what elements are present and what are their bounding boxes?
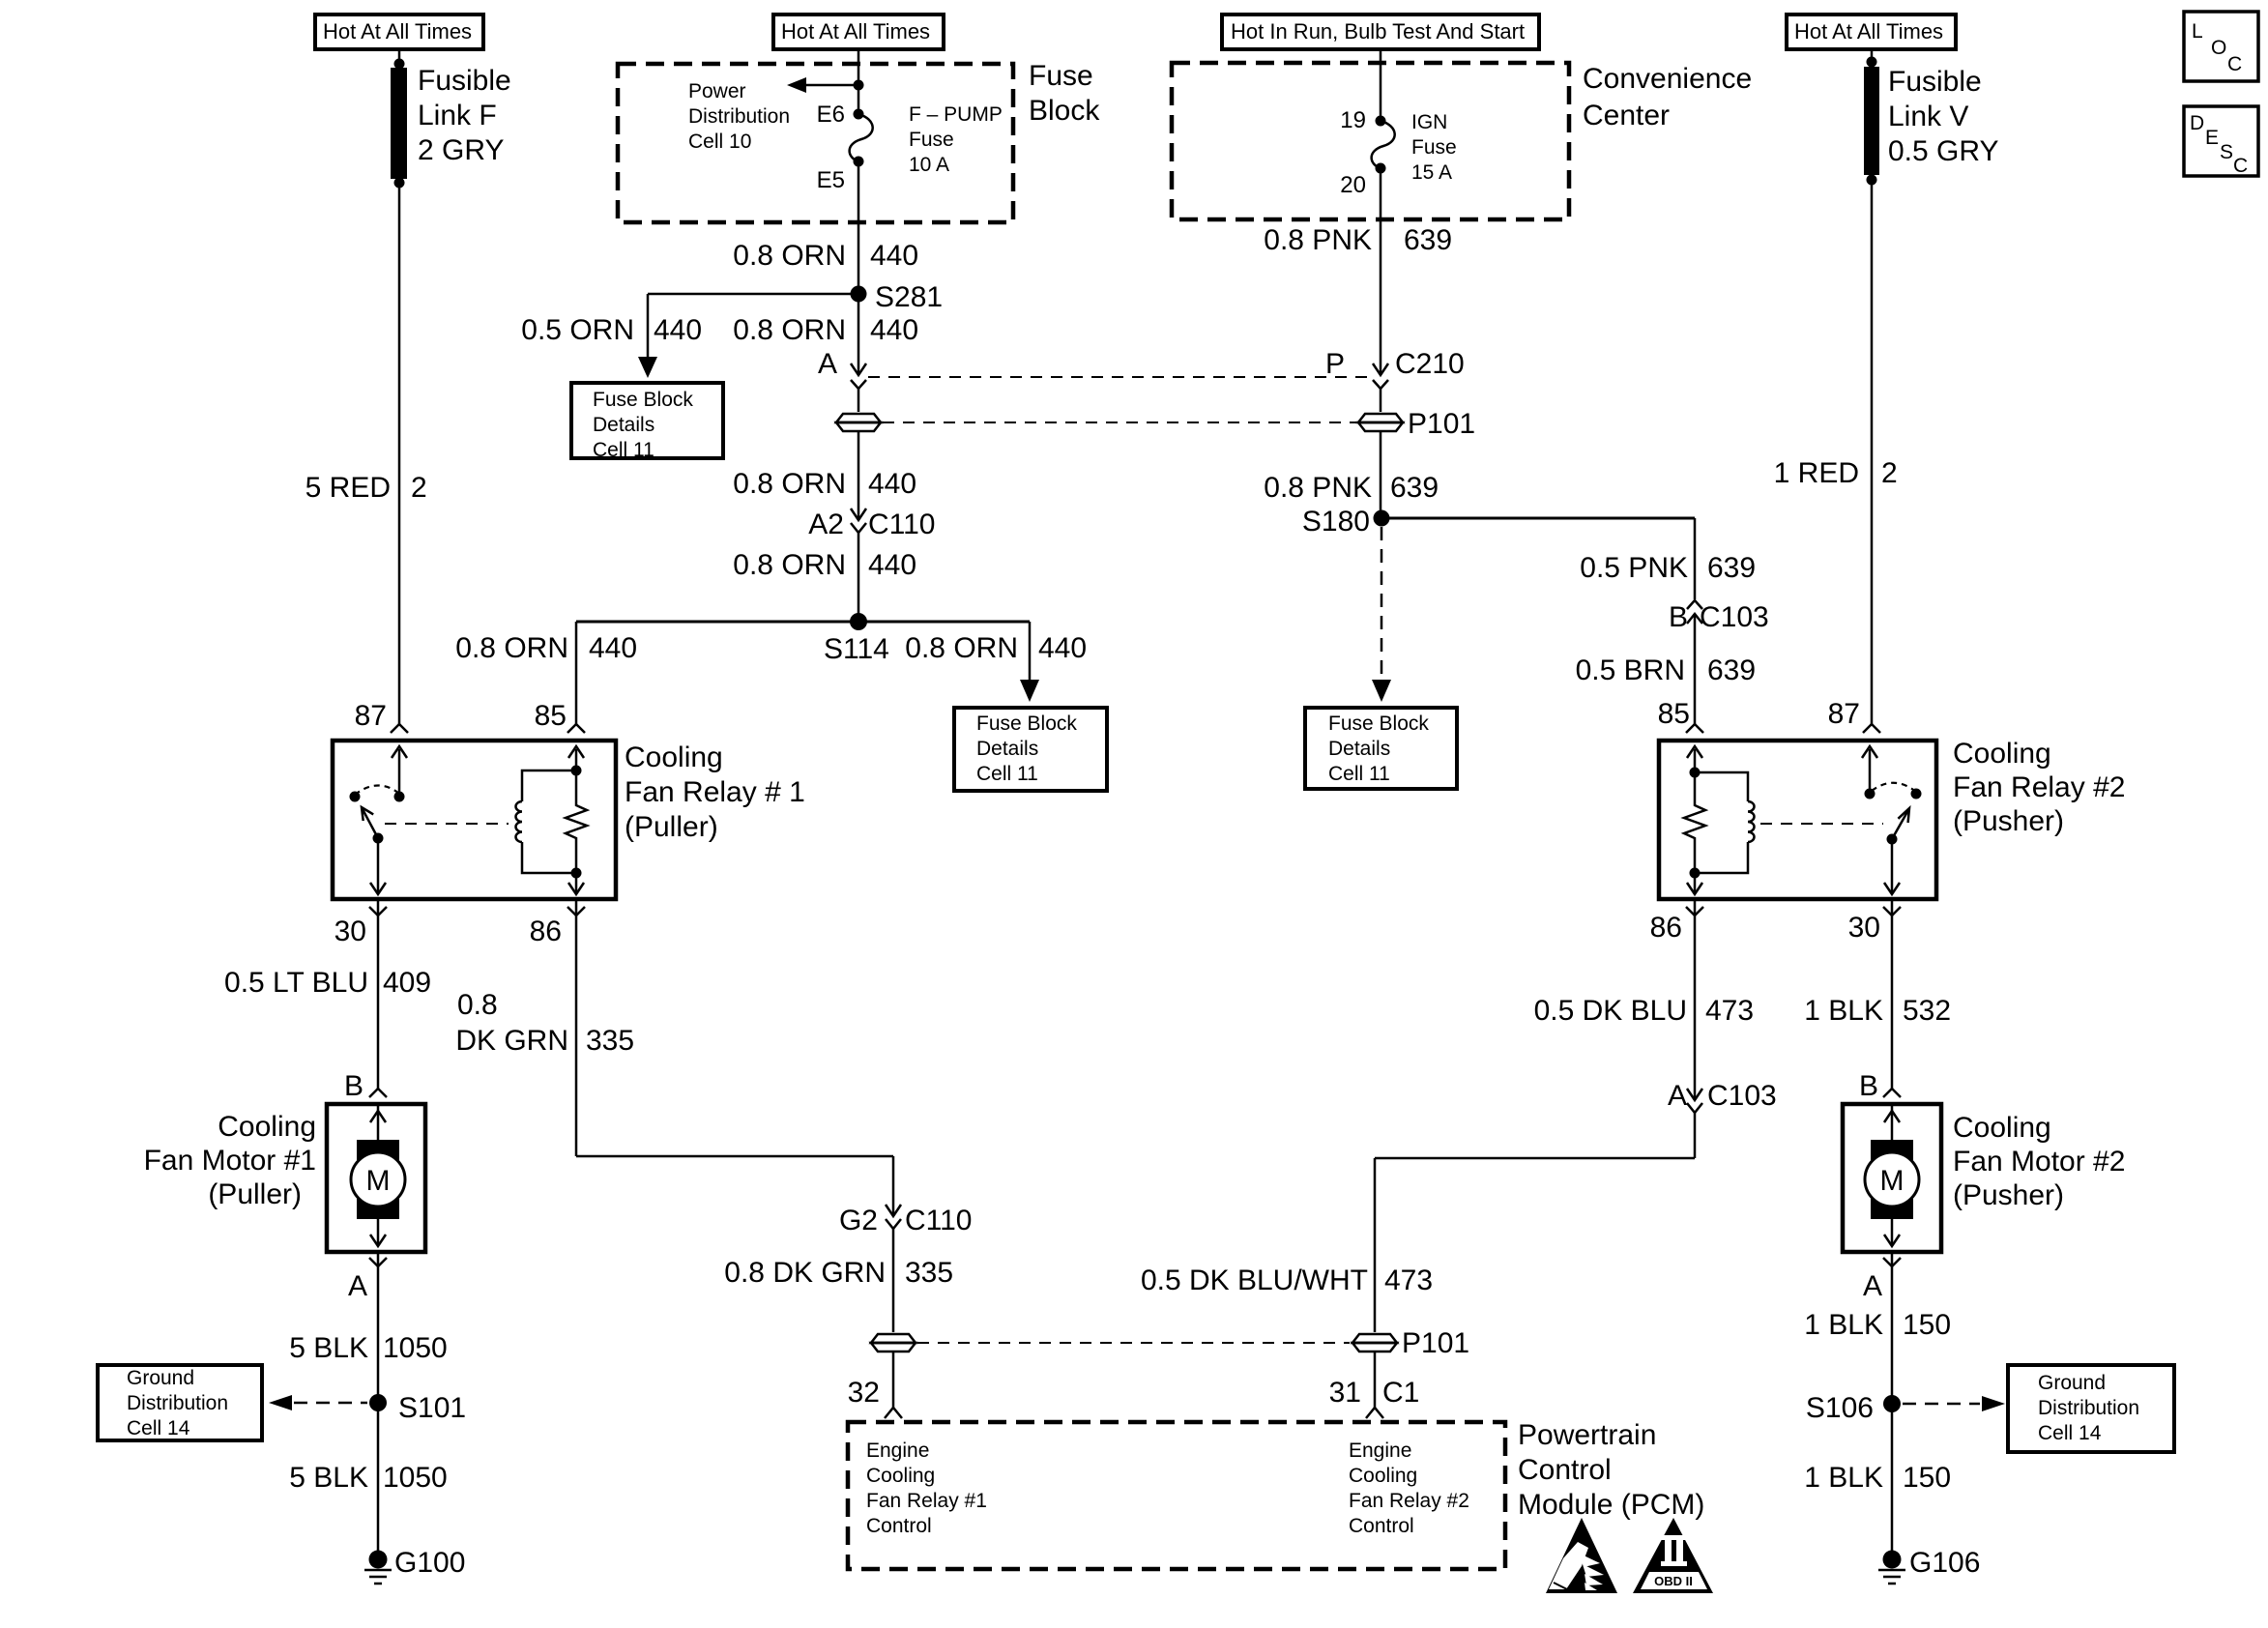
svg-text:Fusible: Fusible [418, 65, 511, 97]
feed box "Hot At All Times" (left) [315, 15, 483, 49]
svg-text:C1: C1 [1382, 1377, 1419, 1409]
svg-text:Cell 11: Cell 11 [1328, 763, 1390, 785]
svg-text:Engine: Engine [866, 1439, 929, 1462]
svg-text:0.8 ORN: 0.8 ORN [733, 468, 846, 500]
svg-text:0.5 BRN: 0.5 BRN [1576, 654, 1685, 686]
svg-text:1 BLK: 1 BLK [1804, 1309, 1883, 1341]
wire P101 to C110 [858, 431, 860, 520]
OBD II symbol [1633, 1518, 1713, 1593]
pin 85 label relay 1 [535, 700, 585, 733]
relay K2 switch lever with arrow [1887, 808, 1910, 845]
svg-text:Fuse: Fuse [909, 129, 954, 151]
svg-text:IGN: IGN [1411, 111, 1447, 133]
connector C110 pin A2 [808, 509, 935, 540]
svg-text:409: 409 [383, 967, 431, 999]
relay K1 switch fixed contact [350, 792, 361, 802]
wire to P101 left [858, 389, 860, 412]
feed box "Hot At All Times" (middle) [773, 15, 944, 49]
motor M1 rotor circle [351, 1152, 405, 1206]
relay K2 pin 87 internal arrow [1862, 746, 1877, 799]
svg-text:Cell 10: Cell 10 [688, 131, 751, 153]
svg-text:Cooling: Cooling [1349, 1465, 1417, 1487]
svg-text:S114: S114 [824, 633, 889, 665]
svg-text:(Puller): (Puller) [625, 811, 718, 843]
dashed connector line P101 (bottom pair) [917, 1342, 1350, 1344]
relay K1 box: Cooling Fan Relay #1 (Puller) [333, 741, 616, 899]
svg-text:Fan Relay #1: Fan Relay #1 [866, 1490, 987, 1512]
svg-text:Cooling: Cooling [625, 741, 723, 773]
pass-through grommet P101 (DK BLU/WHT wire) [1352, 1327, 1469, 1359]
svg-text:DK GRN: DK GRN [455, 1025, 568, 1057]
relay K2 control dashed line [1760, 823, 1883, 825]
power distribution reference text [688, 80, 790, 153]
junction dot and arrow to power distribution [787, 77, 864, 93]
wire 0.5 LT BLU 409 relay1-30 to motor1-B [377, 899, 380, 1090]
svg-text:Engine: Engine [1349, 1439, 1411, 1462]
motor M2 rotor circle [1865, 1152, 1919, 1206]
wire 0.8 DK GRN relay1 pin86 down [575, 899, 578, 1156]
motor2 pin B connector [1859, 1070, 1901, 1102]
svg-text:86: 86 [530, 916, 562, 947]
svg-text:Fan Relay #2: Fan Relay #2 [1349, 1490, 1469, 1512]
convenience center name label [1583, 63, 1752, 131]
svg-text:Block: Block [1029, 95, 1100, 127]
svg-text:0.8: 0.8 [457, 989, 498, 1021]
svg-text:P101: P101 [1402, 1327, 1469, 1359]
svg-text:0.8 ORN: 0.8 ORN [733, 549, 846, 581]
svg-text:Cooling: Cooling [1953, 738, 2051, 770]
svg-text:Fan Relay #2: Fan Relay #2 [1953, 771, 2125, 803]
wire from hot box to fusible link V [1871, 49, 1874, 62]
svg-text:1 BLK: 1 BLK [1804, 1462, 1883, 1494]
svg-text:0.8 ORN: 0.8 ORN [455, 632, 568, 664]
ground G100 [364, 1547, 465, 1584]
relay K1 resistor [566, 766, 587, 879]
svg-text:1 BLK: 1 BLK [1804, 995, 1883, 1027]
svg-text:Cooling: Cooling [1953, 1112, 2051, 1144]
svg-text:A: A [1668, 1080, 1687, 1112]
fuse F-PUMP pin E5 [817, 157, 864, 194]
svg-text:87: 87 [1828, 698, 1860, 730]
svg-text:87: 87 [355, 700, 387, 732]
wire S281 down to connector A C210 [858, 294, 860, 375]
fuse block dashed box [618, 64, 1013, 222]
svg-text:Link F: Link F [418, 100, 497, 131]
svg-text:Cooling: Cooling [866, 1465, 935, 1487]
fuse IGN name label [1411, 111, 1457, 184]
wire 0.5 PNK 639 S180 to C103 [1381, 518, 1695, 599]
svg-text:Hot In Run, Bulb Test And Star: Hot In Run, Bulb Test And Start [1231, 19, 1525, 44]
label 0.8 ORN 440 (above C110) [733, 468, 916, 500]
pass-through grommet P101 (ORN wire) [836, 414, 881, 431]
svg-text:Fuse: Fuse [1029, 60, 1093, 92]
motor M1 brushes [357, 1140, 399, 1219]
fuse F-PUMP name label [909, 103, 1003, 176]
svg-text:0.8 ORN: 0.8 ORN [733, 240, 846, 272]
svg-text:2: 2 [1881, 457, 1898, 489]
label 0.8 / DK GRN 335 [455, 989, 634, 1057]
wire 0.8 ORN 440 S114 to relay1 pin 85 [575, 622, 578, 725]
svg-text:Cell 14: Cell 14 [2038, 1422, 2102, 1444]
wire from hot box to fusible link F [398, 49, 401, 64]
S114 bus wire [576, 621, 1030, 624]
svg-text:A: A [818, 348, 837, 380]
svg-text:473: 473 [1705, 995, 1754, 1027]
motor M1 internal top arrow [370, 1106, 386, 1143]
svg-text:A2: A2 [808, 509, 844, 540]
label 5 RED 2 [305, 472, 427, 504]
svg-text:C: C [2227, 53, 2242, 75]
pin 87 label relay 1 [355, 700, 408, 733]
svg-text:Power: Power [688, 80, 746, 102]
relay K1 switch lever with arrow [362, 807, 384, 844]
svg-text:OBD II: OBD II [1654, 1574, 1693, 1588]
svg-text:Cell 14: Cell 14 [127, 1417, 190, 1439]
relay K2 coil [1695, 772, 1755, 873]
svg-text:P: P [1325, 348, 1345, 380]
svg-text:150: 150 [1903, 1462, 1951, 1494]
svg-text:Ground: Ground [127, 1367, 194, 1389]
motor M1 name label [144, 1111, 316, 1210]
PCM internal label: Engine Cooling Fan Relay #2 Control [1349, 1439, 1469, 1537]
svg-text:0.5 PNK: 0.5 PNK [1580, 552, 1688, 584]
fuse IGN pin 20 [1340, 163, 1385, 199]
svg-text:Module (PCM): Module (PCM) [1518, 1489, 1704, 1521]
svg-text:440: 440 [870, 240, 918, 272]
svg-text:Hot At All Times: Hot At All Times [781, 19, 930, 44]
svg-text:2 GRY: 2 GRY [418, 134, 505, 166]
svg-text:440: 440 [868, 468, 916, 500]
splice S101 [369, 1392, 466, 1424]
svg-text:85: 85 [1658, 698, 1690, 730]
wire 0.5 BRN 639 C103 to relay2 pin 85 [1694, 614, 1697, 725]
svg-text:Cell 11: Cell 11 [593, 439, 654, 461]
svg-text:S: S [2220, 141, 2233, 163]
svg-text:335: 335 [586, 1025, 634, 1057]
svg-text:Details: Details [976, 738, 1038, 760]
PCM pin 31 C1 [1329, 1377, 1420, 1418]
fuse F-PUMP 10A pin E6 [817, 102, 864, 128]
relay K2 switch dashed arc [1872, 783, 1916, 792]
svg-text:C: C [2233, 155, 2248, 177]
svg-text:E6: E6 [817, 102, 845, 128]
svg-text:440: 440 [654, 314, 702, 346]
svg-text:Details: Details [593, 414, 654, 436]
PCM pin 32 [848, 1377, 902, 1418]
svg-text:S281: S281 [875, 281, 943, 313]
svg-text:S101: S101 [398, 1392, 466, 1424]
relay K2 pin 30 internal arrow [1884, 839, 1900, 894]
svg-text:0.5 DK BLU/WHT: 0.5 DK BLU/WHT [1141, 1265, 1368, 1296]
svg-text:1050: 1050 [383, 1462, 448, 1494]
svg-text:C103: C103 [1707, 1080, 1777, 1112]
svg-text:Fan Motor #1: Fan Motor #1 [144, 1145, 316, 1177]
relay K1 pin 85 internal arrow [568, 746, 584, 770]
svg-text:335: 335 [905, 1257, 953, 1289]
svg-text:440: 440 [1038, 632, 1087, 664]
relay K1 pin 86 internal arrow [568, 873, 584, 894]
wire corner to G2 C110 [576, 1156, 893, 1216]
svg-text:85: 85 [535, 700, 567, 732]
svg-text:B: B [1669, 601, 1688, 633]
relay K2 box: Cooling Fan Relay #2 (Pusher) [1659, 741, 1936, 899]
wire 5 BLK 1050 motor1-A to S101 [377, 1252, 380, 1551]
wire hot feed into convenience center [1380, 49, 1382, 121]
svg-text:639: 639 [1707, 552, 1756, 584]
wire 1 RED 2 down to relay 2 pin 87 [1871, 180, 1874, 725]
fuse F-PUMP element [850, 114, 873, 161]
svg-text:Fan Relay # 1: Fan Relay # 1 [625, 776, 805, 808]
svg-text:A: A [1863, 1270, 1882, 1302]
svg-text:0.5 DK BLU: 0.5 DK BLU [1534, 995, 1687, 1027]
wire C103 corner to P101 [1375, 1113, 1695, 1332]
svg-text:0.8 ORN: 0.8 ORN [905, 632, 1018, 664]
svg-text:440: 440 [868, 549, 916, 581]
label 0.8 ORN 440 (below S281) [733, 314, 918, 346]
label 1 BLK 150 (lower) [1804, 1462, 1951, 1494]
feed box "Hot At All Times" (right) [1787, 15, 1956, 49]
svg-text:20: 20 [1340, 172, 1366, 198]
motor2 pin A connector [1863, 1258, 1901, 1302]
pin 86 label relay 1 [530, 907, 585, 947]
fuse block details box (right) [1305, 708, 1457, 789]
relay K1 pin 87 internal arrow [392, 746, 407, 802]
svg-text:5 BLK: 5 BLK [289, 1332, 368, 1364]
relay K2 switch fixed contact [1911, 789, 1922, 799]
dashed connector line C210 [868, 376, 1372, 378]
svg-text:5 BLK: 5 BLK [289, 1462, 368, 1494]
motor M2 internal bottom arrow [1884, 1219, 1900, 1246]
svg-text:C210: C210 [1395, 348, 1465, 380]
relay K1 coil [516, 770, 577, 873]
svg-text:473: 473 [1384, 1265, 1433, 1296]
relay K1 control dashed line [385, 823, 509, 825]
svg-text:0.8 PNK: 0.8 PNK [1264, 472, 1372, 504]
splice S106 [1806, 1392, 1901, 1424]
wire 0.5 DK BLU 473 relay2-86 down to C103 [1694, 899, 1697, 1100]
svg-text:Fuse: Fuse [1411, 136, 1457, 159]
svg-text:0.8 DK GRN: 0.8 DK GRN [724, 1257, 886, 1289]
svg-text:532: 532 [1903, 995, 1951, 1027]
svg-text:A: A [348, 1270, 367, 1302]
ground G106 [1878, 1547, 1980, 1584]
svg-text:639: 639 [1707, 654, 1756, 686]
svg-text:D: D [2190, 112, 2204, 134]
motor M2 internal top arrow [1884, 1106, 1900, 1143]
svg-text:639: 639 [1390, 472, 1439, 504]
svg-text:B: B [1859, 1070, 1878, 1102]
svg-text:P101: P101 [1408, 408, 1475, 440]
relay K1 switch dashed arc [355, 785, 398, 795]
svg-text:Distribution: Distribution [2038, 1397, 2139, 1419]
svg-text:G106: G106 [1909, 1547, 1980, 1579]
svg-text:G2: G2 [839, 1205, 878, 1236]
fusible link F (2 GRY) [391, 59, 511, 189]
svg-text:440: 440 [870, 314, 918, 346]
svg-text:C110: C110 [868, 509, 936, 540]
svg-text:(Pusher): (Pusher) [1953, 1179, 2064, 1211]
svg-text:2: 2 [411, 472, 427, 504]
svg-text:Distribution: Distribution [127, 1392, 228, 1414]
ground distribution reference box (right) [2008, 1365, 2174, 1452]
PCM internal label: Engine Cooling Fan Relay #1 Control [866, 1439, 987, 1537]
wire to P101 right [1380, 389, 1382, 412]
svg-text:S180: S180 [1302, 506, 1370, 538]
wire 0.8 ORN 440 C110 to S114 [858, 533, 860, 622]
motor1 pin B connector [344, 1070, 387, 1102]
convenience center dashed box [1172, 63, 1569, 219]
PCM name label [1518, 1419, 1704, 1521]
svg-text:Hot At All Times: Hot At All Times [1794, 19, 1943, 44]
splice S180 [1302, 506, 1390, 538]
svg-text:(Pusher): (Pusher) [1953, 805, 2064, 837]
fuse block details box (left) [571, 383, 723, 461]
svg-text:C110: C110 [905, 1205, 973, 1236]
svg-text:B: B [344, 1070, 363, 1102]
connector C210 pin P [1325, 348, 1465, 389]
DESC key box [2184, 106, 2258, 177]
label 5 BLK 1050 (lower) [289, 1462, 447, 1494]
pin 87 label relay 2 [1828, 698, 1880, 733]
svg-text:0.5 GRY: 0.5 GRY [1888, 135, 1999, 167]
svg-text:5 RED: 5 RED [305, 472, 391, 504]
label 0.5 ORN 440 [521, 314, 702, 346]
motor1 pin A connector [348, 1258, 387, 1302]
svg-text:15 A: 15 A [1411, 161, 1452, 184]
svg-text:M: M [366, 1165, 391, 1197]
ground distribution reference box (left) [98, 1365, 262, 1440]
svg-text:M: M [1880, 1165, 1905, 1197]
svg-text:30: 30 [1848, 912, 1880, 944]
svg-text:Powertrain: Powertrain [1518, 1419, 1656, 1451]
dashed reference arrow S101 to ground distribution box [269, 1395, 367, 1410]
pin 30 label relay 1 [334, 907, 387, 947]
wire P101 to PCM pin 32 [892, 1352, 895, 1408]
svg-text:Hot At All Times: Hot At All Times [323, 19, 472, 44]
svg-text:G100: G100 [394, 1547, 465, 1579]
svg-text:Details: Details [1328, 738, 1390, 760]
pin 30 label relay 2 [1848, 907, 1901, 944]
svg-text:F – PUMP: F – PUMP [909, 103, 1003, 126]
svg-text:Fuse Block: Fuse Block [1328, 712, 1429, 735]
wire hot feed into fuse block [858, 49, 860, 114]
svg-text:10 A: 10 A [909, 154, 949, 176]
svg-text:0.8 ORN: 0.8 ORN [733, 314, 846, 346]
pass-through grommet P101 (DK GRN wire) [871, 1334, 916, 1352]
wire 0.5 ORN 440 branch to fuse block details [638, 294, 858, 378]
fuse IGN pin 19 [1340, 107, 1385, 133]
label 0.5 DK BLU/WHT 473 [1141, 1265, 1433, 1296]
svg-text:Convenience: Convenience [1583, 63, 1752, 95]
fusible link V (0.5 GRY) [1864, 57, 1999, 186]
pass-through grommet P101 (PNK wire) [1358, 408, 1475, 440]
svg-text:O: O [2211, 37, 2226, 59]
svg-text:C103: C103 [1700, 601, 1769, 633]
motor M2 box: Cooling Fan Motor #2 [1843, 1104, 1941, 1252]
svg-text:Fusible: Fusible [1888, 66, 1982, 98]
svg-text:440: 440 [589, 632, 637, 664]
motor M2 name label [1953, 1112, 2125, 1211]
wire 0.8 ORN 440 fuse E5 to S281 [858, 161, 860, 294]
pin 86 label relay 2 [1650, 907, 1703, 944]
svg-text:Fan Motor #2: Fan Motor #2 [1953, 1146, 2125, 1177]
svg-text:86: 86 [1650, 912, 1682, 944]
svg-text:Control: Control [866, 1515, 932, 1537]
svg-text:32: 32 [848, 1377, 880, 1409]
svg-text:Ground: Ground [2038, 1372, 2106, 1394]
splice S281 [851, 281, 944, 313]
svg-text:Cell 11: Cell 11 [976, 763, 1038, 785]
relay K2 name label [1953, 738, 2125, 837]
LOC key box [2184, 12, 2258, 81]
motor M2 brushes [1871, 1140, 1913, 1219]
svg-text:Cooling: Cooling [218, 1111, 316, 1143]
wire 5 RED 2 down to relay 1 pin 87 [398, 183, 401, 725]
svg-text:19: 19 [1340, 107, 1366, 133]
wire 1 BLK 150 motor2-A to S106 [1891, 1252, 1894, 1551]
svg-text:E: E [2205, 127, 2219, 149]
dashed reference arrow S106 to ground distribution box [1903, 1396, 2005, 1411]
svg-text:(Puller): (Puller) [208, 1178, 302, 1210]
svg-text:1050: 1050 [383, 1332, 448, 1364]
ESD warning symbol [1546, 1518, 1617, 1593]
svg-text:Fuse Block: Fuse Block [593, 389, 693, 411]
svg-text:0.5 ORN: 0.5 ORN [521, 314, 634, 346]
wire P101 to PCM pin 31 [1374, 1352, 1377, 1408]
svg-text:0.5 LT BLU: 0.5 LT BLU [224, 967, 368, 999]
wire 0.8 DK GRN 335 to P101 [892, 1229, 895, 1332]
svg-text:L: L [2192, 20, 2203, 43]
wire 1 BLK 532 relay2-30 to motor2-B [1891, 899, 1894, 1090]
motor M1 internal bottom arrow [370, 1219, 386, 1246]
relay K1 name label [625, 741, 805, 843]
connector C210 pin A [818, 348, 866, 389]
svg-text:Distribution: Distribution [688, 105, 790, 128]
PCM dashed box: Powertrain Control Module [848, 1422, 1505, 1569]
svg-text:Control: Control [1518, 1454, 1612, 1486]
dashed wire S180 to fuse block details [1372, 527, 1391, 702]
fuse IGN element [1372, 121, 1395, 168]
dashed connector line P101 (top pair) [883, 422, 1356, 423]
svg-text:150: 150 [1903, 1309, 1951, 1341]
svg-text:0.8 PNK: 0.8 PNK [1264, 224, 1372, 256]
svg-text:31: 31 [1329, 1377, 1361, 1409]
relay K1 pin 30 internal arrow [370, 838, 386, 894]
svg-text:Link V: Link V [1888, 101, 1968, 132]
connector C103 pin B [1669, 600, 1769, 633]
svg-text:Center: Center [1583, 100, 1670, 131]
splice S114 [824, 613, 889, 665]
svg-text:E5: E5 [817, 167, 845, 193]
svg-text:1 RED: 1 RED [1774, 457, 1859, 489]
svg-text:Fuse Block: Fuse Block [976, 712, 1077, 735]
svg-text:Control: Control [1349, 1515, 1414, 1537]
fuse block name label [1029, 60, 1100, 127]
motor M1 box: Cooling Fan Motor #1 [327, 1104, 425, 1252]
svg-text:639: 639 [1404, 224, 1452, 256]
svg-text:30: 30 [334, 916, 366, 947]
connector C103 pin A [1668, 1080, 1777, 1113]
relay K2 resistor with arrows [1684, 746, 1705, 894]
svg-text:S106: S106 [1806, 1392, 1874, 1424]
wire 0.8 PNK 639 fuse to C210 [1380, 168, 1382, 375]
wire 0.8 PNK 639 P101 to S180 [1380, 431, 1382, 518]
pin 85 label relay 2 [1658, 698, 1703, 733]
fuse block details box (center) [954, 708, 1107, 791]
connector C110 pin G2 [839, 1205, 973, 1236]
wire 0.8 ORN 440 S114 to fuse block details (right branch) [1020, 622, 1039, 702]
feed box "Hot In Run, Bulb Test And Start" [1222, 15, 1539, 49]
